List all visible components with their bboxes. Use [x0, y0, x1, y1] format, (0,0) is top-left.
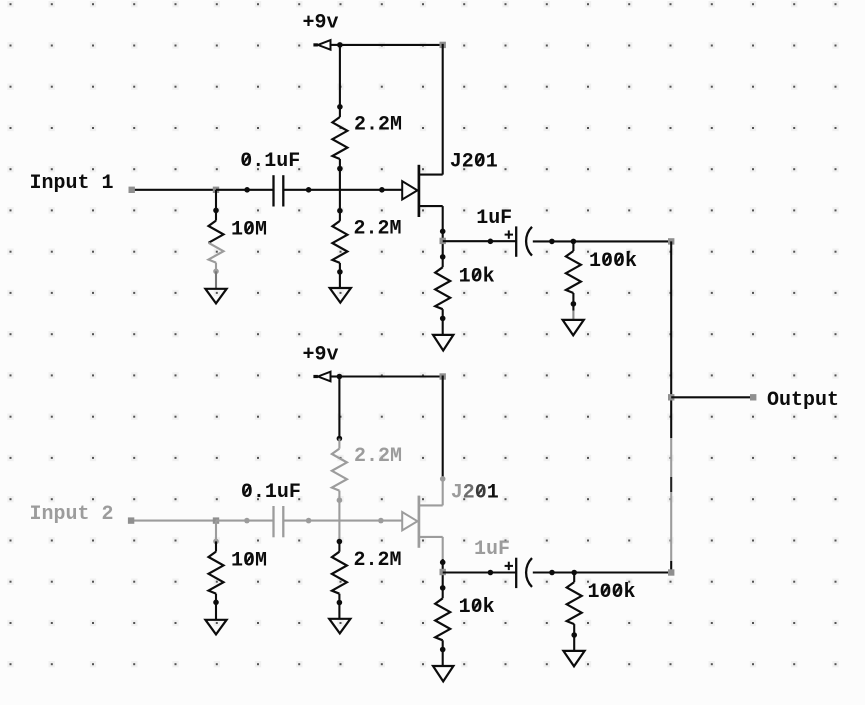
wire power node down to R6 (channel 2): [338, 377, 340, 439]
wire source drop vertical gray (channel 2): [442, 537, 444, 588]
wire R2 to ground (channel 1): [339, 272, 341, 288]
node dot source pin (channel 2): [440, 560, 446, 566]
wire R5 to ground (channel 1): [572, 304, 574, 320]
label R2 value 2.2M (channel 1): [354, 218, 402, 241]
node dot R5 tap (channel 1): [571, 239, 577, 245]
net endpoint square output bus bottom: [668, 569, 674, 575]
label Input 1: [30, 172, 114, 195]
resistor R7 2.2M (channel 2): [332, 542, 347, 603]
svg-text:10k: 10k: [459, 596, 495, 619]
wire R3 to ground (channel 1): [215, 271, 217, 289]
wire gate net down to R2 (channel 1): [339, 190, 341, 211]
wire output bus vertical upper: [670, 241, 672, 438]
label R4 value 10k (channel 1): [459, 265, 495, 288]
svg-text:100k: 100k: [589, 250, 637, 273]
svg-text:10M: 10M: [231, 219, 267, 242]
ground symbol below R4 (channel 1): [433, 335, 453, 351]
wire Input 1 to junction (channel 1): [132, 189, 216, 191]
svg-text:10M: 10M: [231, 550, 267, 573]
wire junction down to R8 gray (channel 2): [215, 521, 217, 542]
svg-text:Input 1: Input 1: [30, 172, 114, 195]
resistor R6 2.2M upper pin dot (channel 2): [337, 436, 343, 442]
ground symbol below R3 (channel 1): [205, 289, 226, 304]
node dot C1 right lead (channel 1): [306, 187, 312, 193]
svg-text:2.2M: 2.2M: [354, 445, 402, 468]
wire R4 to ground (channel 1): [442, 318, 444, 335]
capacitor C2 1uF polarized (channel 1): [505, 226, 532, 256]
svg-text:100k: 100k: [588, 581, 636, 604]
svg-text:J201: J201: [451, 481, 499, 504]
label R1 value 2.2M (channel 1): [354, 114, 402, 137]
svg-text:10k: 10k: [459, 265, 495, 288]
power symbol +9v label (channel 2): [303, 343, 339, 366]
resistor R1 2.2M upper pin dot (channel 1): [337, 104, 343, 110]
node dot R10 tap (channel 2): [571, 570, 577, 576]
wire output bus vertical gray segment: [670, 438, 672, 477]
wire gate net down to R7 gray (channel 2): [338, 521, 340, 542]
wire C4 to output bus (channel 2): [533, 571, 671, 573]
wire R9 to ground (channel 2): [442, 650, 444, 667]
net junction square at R8 tap (channel 2): [213, 517, 219, 523]
node dot C1 left lead (channel 1): [244, 187, 250, 193]
node dot C4 right lead (channel 2): [549, 570, 555, 576]
resistor R8 10M upper pin dot gray (channel 2): [213, 539, 219, 545]
resistor R9 10k (channel 2): [435, 588, 450, 650]
node dot C3 left lead gray (channel 2): [244, 518, 250, 524]
resistor R5 lower pin dot (channel 1): [571, 301, 577, 307]
node dot C2 left lead (channel 1): [488, 239, 494, 245]
ground symbol below R5 (channel 1): [563, 320, 584, 335]
node dot C2 right lead (channel 1): [549, 239, 555, 245]
wire source node to C4 (channel 2): [443, 571, 517, 573]
svg-text:J201: J201: [450, 150, 498, 173]
transistor Q2 J201 JFET gray (channel 2): [402, 496, 443, 548]
power symbol +9v label (channel 1): [303, 12, 339, 35]
wire junction down to R3 (channel 1): [215, 190, 217, 211]
wire power arrow to node (channel 1): [331, 44, 340, 46]
label Q1 designator J201 (channel 1): [450, 150, 498, 173]
wire R1 to gate net (channel 1): [339, 169, 341, 190]
resistor R3 10M upper pin dot (channel 1): [213, 208, 219, 214]
svg-text:Input 2: Input 2: [30, 503, 114, 526]
net endpoint square Input 1 start: [129, 187, 135, 193]
node dot drain pin (channel 2): [440, 476, 446, 482]
node dot R9 upper pin (channel 2): [440, 585, 446, 591]
capacitor C3 0.1uF gray (channel 2): [274, 506, 284, 537]
wire power arrow to node (channel 2): [331, 375, 340, 377]
label C4 value 1uF gray (channel 2): [474, 538, 510, 561]
resistor R10 100k (channel 2): [567, 573, 582, 636]
label C3 value 0.1uF (channel 2): [241, 481, 301, 504]
resistor R4 lower pin dot (channel 1): [440, 316, 446, 322]
wire drain drop vertical (channel 1): [442, 44, 444, 175]
node dot gate lead gray (channel 2): [378, 518, 384, 524]
wire source drop vertical (channel 1): [442, 206, 444, 257]
wire R8 to ground (channel 2): [215, 602, 217, 620]
label R6 value 2.2M gray (channel 2): [354, 445, 402, 468]
wire R10 to ground (channel 2): [573, 635, 575, 651]
capacitor C4 1uF polarized (channel 2): [505, 558, 532, 588]
label Q2 designator J201 (channel 2): [451, 481, 499, 504]
node dot C3 right lead gray (channel 2): [306, 518, 312, 524]
ground symbol below R7 (channel 2): [329, 619, 350, 634]
svg-text:1uF: 1uF: [474, 538, 510, 561]
wire power rail horizontal to drain drop (channel 1): [340, 44, 443, 46]
capacitor C1 0.1uF (channel 1): [274, 175, 284, 206]
svg-text:1uF: 1uF: [476, 207, 512, 230]
wire output bus vertical dark dash: [670, 477, 672, 492]
label Output: [767, 389, 839, 412]
label R10 value 100k (channel 2): [588, 581, 636, 604]
ground symbol below R8 (channel 2): [205, 620, 226, 635]
resistor R2 lower pin dot (channel 1): [337, 269, 343, 275]
label R7 value 2.2M (channel 2): [354, 549, 402, 572]
svg-text:2.2M: 2.2M: [354, 549, 402, 572]
node dot gate lead (channel 1): [379, 187, 385, 193]
resistor R8 lower pin dot (channel 2): [213, 600, 219, 606]
wire Input 2 to junction gray (channel 2): [131, 520, 216, 522]
node power junction dot (channel 1): [337, 42, 343, 48]
net junction square at R3 tap (channel 1): [213, 187, 219, 193]
resistor R7 lower pin dot (channel 2): [337, 600, 343, 606]
ground symbol below R9 (channel 2): [433, 666, 453, 681]
resistor R7 2.2M upper pin dot (channel 2): [337, 539, 343, 545]
node power junction dot (channel 2): [337, 374, 343, 380]
transistor Q1 J201 JFET (channel 1): [402, 165, 443, 217]
resistor R5 100k (channel 1): [566, 241, 581, 304]
wire C3 to gate gray (channel 2): [283, 520, 402, 522]
resistor R1 2.2M (channel 1): [332, 107, 347, 169]
svg-text:Output: Output: [767, 389, 839, 412]
wire output tap horizontal: [671, 396, 753, 398]
label R5 value 100k (channel 1): [589, 250, 637, 273]
net junction square source node (channel 2): [440, 569, 446, 575]
net endpoint square output wire end: [750, 394, 756, 400]
ground symbol below R10 (channel 2): [563, 651, 584, 666]
resistor R6 lower pin dot (channel 2): [337, 497, 343, 503]
resistor R3 10M (channel 1): [209, 210, 224, 271]
label R9 value 10k (channel 2): [459, 596, 495, 619]
label R8 value 10M (channel 2): [231, 550, 267, 573]
resistor R3 lower pin dot (channel 1): [213, 269, 219, 275]
net endpoint square Input 2 start: [128, 517, 134, 523]
ground symbol below R2 (channel 1): [330, 288, 351, 303]
resistor R9 lower pin dot (channel 2): [440, 647, 446, 653]
node dot source pin (channel 1): [440, 229, 446, 235]
label Input 2 gray: [30, 503, 114, 526]
wire power rail horizontal to drain drop (channel 2): [339, 375, 442, 377]
wire junction to C3 gray (channel 2): [216, 520, 274, 522]
power arrow symbol (channel 2): [313, 372, 330, 382]
node dot R4 upper pin (channel 1): [440, 254, 446, 260]
svg-text:0.1uF: 0.1uF: [241, 481, 301, 504]
wire source node to C2 (channel 1): [443, 240, 517, 242]
net endpoint square output bus top: [668, 238, 674, 244]
net junction square source node (channel 1): [440, 238, 446, 244]
wire power node down to R1 (channel 1): [339, 45, 341, 107]
wire R6 to gate net gray (channel 2): [338, 500, 340, 520]
wire output bus vertical bottom: [670, 561, 672, 573]
wire drain drop vertical upper (channel 2): [442, 376, 444, 479]
resistor R10 lower pin dot (channel 2): [571, 632, 577, 638]
svg-text:+9v: +9v: [303, 12, 339, 35]
resistor R2 2.2M (channel 1): [332, 211, 347, 272]
power arrow symbol (channel 1): [313, 40, 330, 50]
wire junction to C1 (channel 1): [216, 189, 274, 191]
wire output bus vertical lower gray: [670, 492, 672, 561]
svg-text:2.2M: 2.2M: [354, 114, 402, 137]
net junction square output tap: [668, 394, 674, 400]
node dot C4 left lead (channel 2): [488, 570, 494, 576]
wire C2 to output bus (channel 1): [533, 240, 671, 242]
resistor R1 lower pin dot (channel 1): [337, 166, 343, 172]
wire drain drop vertical lower gray (channel 2): [442, 479, 444, 506]
label C2 value 1uF (channel 1): [476, 207, 512, 230]
resistor R4 10k (channel 1): [435, 257, 450, 319]
wire R7 to ground (channel 2): [338, 603, 340, 619]
net endpoint square at power rail corner (channel 2): [440, 373, 446, 379]
wire C1 to gate (channel 1): [283, 189, 402, 191]
resistor R6 2.2M gray (channel 2): [332, 439, 347, 501]
label C1 value 0.1uF (channel 1): [240, 150, 300, 173]
net endpoint square at power rail corner (channel 1): [440, 42, 446, 48]
svg-text:+9v: +9v: [303, 343, 339, 366]
label R3 value 10M (channel 1): [231, 219, 267, 242]
svg-text:0.1uF: 0.1uF: [240, 150, 300, 173]
svg-text:2.2M: 2.2M: [354, 218, 402, 241]
resistor R8 10M (channel 2): [209, 541, 224, 602]
resistor R2 2.2M upper pin dot (channel 1): [337, 208, 343, 214]
